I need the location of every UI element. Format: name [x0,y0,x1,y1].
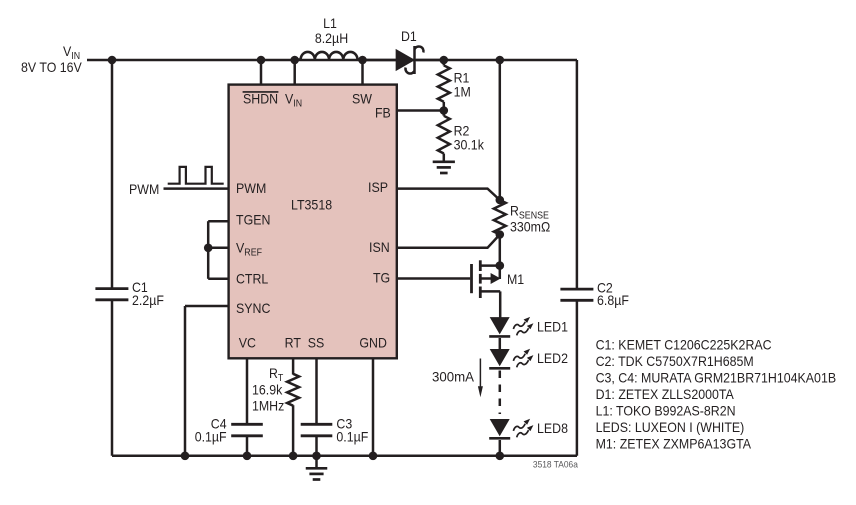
label D1 [401,28,417,44]
wire diode anode [363,59,397,62]
svg-text:SHDN: SHDN [243,91,278,107]
label SS pin [308,334,325,350]
svg-text:8V TO 16V: 8V TO 16V [21,59,82,75]
svg-text:3518 TA06a: 3518 TA06a [533,459,579,470]
wire TGEN pin [208,220,229,223]
wire left rail upper [111,60,114,289]
label GND pin [359,334,387,350]
svg-text:LED1: LED1 [537,318,568,334]
capacitor C2 [560,289,593,300]
wire left rail lower [111,300,114,456]
label C2 [597,279,613,295]
label TG pin [373,270,390,286]
wire FB pin [398,109,444,112]
LED D-LED2 [489,349,532,368]
parts list [596,336,837,451]
wire SYNC down [184,306,187,456]
label R2 [454,123,470,139]
wire VIN pin stub [293,60,296,85]
svg-text:2.2µF: 2.2µF [132,292,164,308]
label C1 [132,279,148,295]
label 30.1k [454,137,485,153]
svg-text:LT3518: LT3518 [291,197,332,213]
300mA arrow [478,359,483,398]
label C3 0.1uF [336,429,368,445]
label figure number [533,459,579,470]
wire right rail lower [576,300,579,456]
svg-text:PWM: PWM [236,180,266,196]
label SW pin [352,91,373,107]
wire R1-R2 link [443,102,446,116]
node RSENSE top [496,196,505,205]
wire right rail upper [576,60,579,289]
wire VOUT junction to RSENSE [499,60,502,200]
node M1 source [496,261,505,270]
diode D1 [396,46,423,74]
svg-text:ISN: ISN [369,239,390,255]
label 1M [454,83,471,99]
wire TG gate [398,277,470,280]
wire GND down [372,358,375,456]
svg-text:1MHz: 1MHz [252,397,284,413]
svg-text:FB: FB [375,105,391,121]
label 300mA [432,368,475,384]
svg-text:SS: SS [308,334,325,350]
svg-text:TG: TG [373,270,390,286]
label 8V TO 16V [21,59,82,75]
capacitor C1 [95,289,128,300]
LED D-LED1 [489,317,532,336]
label 1MHz [252,397,284,413]
label LED2 [537,350,568,366]
inductor L1 [295,52,363,60]
resistor R2 [438,116,450,154]
label PWM input [129,181,159,197]
wire ISN pin [398,235,500,248]
wire bottom rail [112,455,577,458]
ground R2 [433,154,455,174]
transistor M1 [472,260,501,298]
svg-text:R: R [269,365,278,381]
wire LED1-LED2 [499,338,502,349]
node D1-R1 junction [440,56,449,65]
label 6.8uF [597,292,629,308]
label L1 [323,15,337,31]
svg-text:8.2µH: 8.2µH [315,30,348,46]
op-amp U1 LT3518 IC body [229,85,397,359]
ground main [306,456,328,480]
wire diode cathode [416,59,444,62]
node FB junction [440,106,449,115]
label C3 [336,416,352,432]
svg-text:LED2: LED2 [537,350,568,366]
LED D-LED8 [489,419,532,438]
svg-text:M1: ZETEX ZXMP6A13GTA: M1: ZETEX ZXMP6A13GTA [596,435,752,451]
label PWM pin [236,180,266,196]
svg-text:D1: D1 [401,28,417,44]
node LED chain gnd [496,452,505,461]
svg-text:330mΩ: 330mΩ [510,219,550,235]
label ISN pin [369,239,390,255]
svg-text:30.1k: 30.1k [454,137,485,153]
wire TGEN-CTRL loop [207,221,210,279]
wire RT down [292,358,295,456]
node VOUT junction [496,56,505,65]
svg-text:L1: L1 [323,15,337,31]
wire VC down [246,358,249,456]
label M1 [507,271,524,287]
wire top rail VIN [87,59,577,62]
svg-text:L1: TOKO B992AS-8R2N: L1: TOKO B992AS-8R2N [596,402,736,418]
label VIN pin [285,91,302,110]
svg-text:C2: TDK C5750X7R1H685M: C2: TDK C5750X7R1H685M [596,353,754,369]
label CTRL pin [236,270,268,286]
label RT pin [285,334,302,350]
label R1 [454,69,470,85]
PWM waveform symbol [168,167,224,184]
svg-text:GND: GND [359,334,387,350]
node SS gnd [312,452,321,461]
svg-text:16.9k: 16.9k [252,381,283,397]
label TGEN pin [236,212,270,228]
svg-text:M1: M1 [507,271,524,287]
node RSENSE bottom [496,230,505,239]
wire SW pin stub [361,60,364,85]
svg-text:VC: VC [239,334,256,350]
node SYNC-gnd junction [181,452,190,461]
node RT gnd [289,452,298,461]
node VC gnd [243,452,252,461]
svg-text:PWM: PWM [129,181,159,197]
node SW junction [358,56,367,65]
wire R1 top lead [443,60,446,65]
svg-text:ISP: ISP [368,179,388,195]
svg-text:SYNC: SYNC [236,300,270,316]
label LT3518 [291,197,332,213]
svg-text:SW: SW [352,91,373,107]
label VIN source [63,43,80,62]
node VIN pin junction [290,56,299,65]
label 8.2uH [315,30,348,46]
node VREF junction [204,244,213,253]
wire SS down [315,358,318,456]
node GND gnd [369,452,378,461]
wire CTRL pin [208,278,229,281]
label 16.9k [252,381,283,397]
wire M1 drain down [499,291,502,318]
label LED8 [537,420,568,436]
svg-text:CTRL: CTRL [236,270,268,286]
svg-text:TGEN: TGEN [236,212,270,228]
wire ISP pin [398,189,500,200]
resistor RSENSE [494,200,506,235]
label C4 0.1uF [195,429,227,445]
resistor R1 [438,65,450,101]
svg-text:6.8µF: 6.8µF [597,292,629,308]
svg-text:C3, C4: MURATA GRM21BR71H104KA: C3, C4: MURATA GRM21BR71H104KA01B [596,369,837,385]
label RT ref [269,365,283,384]
wire dashed LED2-LED8 [499,371,502,415]
label 330mohm [510,219,550,235]
label SYNC pin [236,300,270,316]
svg-text:R: R [510,202,519,218]
wire VREF pin [208,247,229,250]
wire LED8 to gnd rail [499,440,502,456]
svg-text:300mA: 300mA [432,368,475,384]
wire SYNC pin [185,305,229,308]
capacitor C4 [231,424,263,436]
svg-text:1M: 1M [454,83,471,99]
svg-text:IN: IN [293,99,302,110]
svg-text:REF: REF [244,248,262,259]
label FB pin [375,105,391,121]
label VC pin [239,334,256,350]
node VIN junction [108,56,117,65]
label C4 [211,416,227,432]
svg-text:LED8: LED8 [537,420,568,436]
label SHDN pin [243,91,279,107]
label ISP pin [368,179,388,195]
svg-text:RT: RT [285,334,302,350]
svg-text:0.1µF: 0.1µF [195,429,227,445]
resistor RT [287,374,299,406]
svg-text:D1: ZETEX ZLLS2000TA: D1: ZETEX ZLLS2000TA [596,386,735,402]
label 2.2uF [132,292,164,308]
label LED1 [537,318,568,334]
wire PWM pin [164,187,230,190]
svg-text:C1: KEMET C1206C225K2RAC: C1: KEMET C1206C225K2RAC [596,336,772,352]
wire SHDN pin stub [260,60,263,85]
label VREF pin [236,240,262,259]
label RSENSE [510,202,549,221]
node SHDN junction [257,56,266,65]
svg-text:LEDS: LUXEON I (WHITE): LEDS: LUXEON I (WHITE) [596,419,745,435]
wire RSENSE to M1 [499,235,502,266]
svg-text:0.1µF: 0.1µF [336,429,368,445]
capacitor C3 [301,424,333,436]
